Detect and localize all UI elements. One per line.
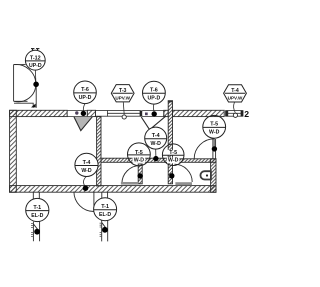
node black disc T-6 left attach bbox=[81, 111, 86, 116]
svg-text:EL-D: EL-D bbox=[31, 213, 43, 219]
stub to T-1 left bbox=[33, 192, 39, 199]
top-right room door arc bbox=[194, 139, 214, 159]
toilet room right wall bbox=[211, 159, 216, 193]
svg-text:T-5: T-5 bbox=[135, 150, 143, 156]
stub to T-1 right bbox=[102, 192, 108, 198]
riser lines below T-1 right bbox=[102, 219, 108, 241]
node dot leaf A bbox=[138, 173, 143, 178]
V door leaves 2 bbox=[141, 116, 166, 130]
toilet room top wall bbox=[179, 159, 217, 163]
svg-text:T-6: T-6 bbox=[81, 87, 89, 93]
svg-text:T-3: T-3 bbox=[119, 88, 127, 94]
tiny marks above T-12 bbox=[31, 49, 39, 53]
tick dashes riser left bbox=[31, 224, 33, 237]
leader T-3 bbox=[122, 102, 125, 114]
jamb tick right window right bbox=[241, 110, 243, 116]
partition left vertical bbox=[97, 117, 101, 186]
wall top hatched segment left bbox=[10, 110, 68, 116]
svg-text:T-5: T-5 bbox=[210, 122, 218, 128]
tag T-1 EL-D right bbox=[94, 198, 117, 221]
wall top hatched segment 4 bbox=[173, 110, 225, 116]
tag T-6 UP-D right bbox=[143, 81, 166, 104]
closet door A arc bbox=[122, 166, 140, 184]
hardware dot purple bbox=[75, 111, 78, 114]
tag T-5 W-D top right bbox=[203, 115, 226, 138]
wall capsule opening with door hardware middle bbox=[142, 111, 164, 117]
svg-text:T-4: T-4 bbox=[152, 133, 160, 139]
tag T-4 W-D left bbox=[75, 153, 98, 176]
svg-text:UP-D: UP-D bbox=[148, 96, 161, 102]
window attach circle T-3 bbox=[122, 115, 126, 119]
threshold wedge bbox=[31, 104, 36, 108]
leader T-4 hex bbox=[234, 102, 236, 112]
hardware square purple bbox=[145, 113, 148, 116]
svg-text:2: 2 bbox=[244, 109, 249, 119]
wall top hatched segment 3 bbox=[164, 110, 168, 116]
svg-text:UP-D: UP-D bbox=[29, 63, 42, 69]
node black disc T-6 right attach bbox=[152, 111, 157, 116]
leader T-12 bbox=[34, 70, 37, 84]
svg-text:UP-D: UP-D bbox=[79, 95, 92, 101]
tag T-6 UP-D left bbox=[74, 81, 97, 104]
riser lines below T-1 left bbox=[33, 222, 39, 242]
top-left entry: flat side line bbox=[13, 65, 15, 102]
leaf bar A bbox=[138, 164, 142, 184]
svg-text:UPV.W: UPV.W bbox=[228, 96, 243, 101]
svg-text:W-D: W-D bbox=[81, 168, 92, 174]
node dot T-5 top bbox=[212, 146, 217, 151]
partition cap tick bbox=[168, 100, 173, 102]
wall opening plain bbox=[96, 111, 108, 117]
tag T-12 UP-D bbox=[25, 50, 45, 70]
partition right vertical tall bbox=[168, 101, 172, 184]
tag T-4 W-D mid bbox=[145, 127, 167, 149]
door arc lower bbox=[14, 84, 36, 101]
tag T-5 W-D mid right bbox=[162, 144, 184, 166]
tag T-3 UPV.W hex bbox=[111, 85, 134, 102]
exterior door leaf bbox=[93, 192, 95, 209]
svg-text:T-1: T-1 bbox=[101, 204, 109, 210]
svg-text:UPV.W: UPV.W bbox=[115, 95, 130, 100]
exterior door arc bottom right bbox=[74, 192, 94, 212]
svg-text:W-D: W-D bbox=[134, 157, 145, 163]
svg-text:T-4: T-4 bbox=[231, 88, 239, 94]
node dot riser left bbox=[34, 229, 40, 235]
node dot leaf B bbox=[169, 173, 174, 178]
closet door A closed leaf bbox=[121, 182, 138, 185]
svg-text:W-D: W-D bbox=[151, 141, 162, 147]
svg-text:W-D: W-D bbox=[168, 158, 179, 164]
tag T-4 UPV.W hex bbox=[224, 85, 247, 102]
tag T-1 EL-D left bbox=[26, 198, 49, 221]
svg-text:W-D: W-D bbox=[209, 130, 220, 136]
wall bottom bbox=[10, 186, 216, 193]
node dot T-4 left bbox=[83, 185, 89, 191]
node dot riser right bbox=[102, 227, 108, 233]
wall capsule opening with door hardware left bbox=[67, 111, 87, 117]
V door leaves 1 bbox=[74, 117, 92, 131]
top-left entry top line bbox=[14, 64, 26, 66]
svg-text:T-5: T-5 bbox=[169, 150, 177, 156]
svg-text:EL-D: EL-D bbox=[99, 212, 111, 218]
window attach circle T-4 bbox=[233, 113, 237, 117]
node dot T-4 mid bbox=[153, 156, 158, 161]
svg-text:T-12: T-12 bbox=[30, 55, 41, 61]
svg-text:T-1: T-1 bbox=[33, 205, 41, 211]
door jamb line down bbox=[35, 84, 37, 108]
leader T-6 right bbox=[152, 104, 155, 111]
leader T-5 top bbox=[213, 138, 215, 149]
wall top hatched segment 2 bbox=[87, 110, 95, 116]
window strip T-4 bbox=[228, 111, 241, 117]
svg-text:T-6: T-6 bbox=[150, 88, 158, 94]
jamb tick right window left bbox=[225, 110, 228, 116]
tick dashes riser right bbox=[100, 223, 102, 236]
leader T-4 mid bbox=[155, 149, 157, 158]
jamb tick bbox=[140, 110, 142, 116]
toilet door arc bbox=[174, 164, 192, 182]
top-left entry bottom line bbox=[14, 100, 28, 102]
step line bbox=[14, 103, 33, 108]
partition middle horizontal bbox=[101, 158, 170, 162]
toilet door closed leaf bbox=[175, 182, 192, 185]
leader T-6 left bbox=[83, 104, 85, 111]
window strip T-3 bbox=[107, 111, 140, 117]
door arc upper bbox=[14, 64, 36, 84]
node dot T-12 bbox=[33, 82, 39, 88]
stub under T-5 top bbox=[213, 139, 216, 159]
svg-text:T-4: T-4 bbox=[83, 160, 91, 166]
toilet fixture bbox=[200, 171, 210, 179]
wall left vertical bbox=[10, 110, 17, 192]
tag T-5 W-D mid left bbox=[127, 143, 150, 166]
leader T-4 left bbox=[84, 177, 87, 188]
